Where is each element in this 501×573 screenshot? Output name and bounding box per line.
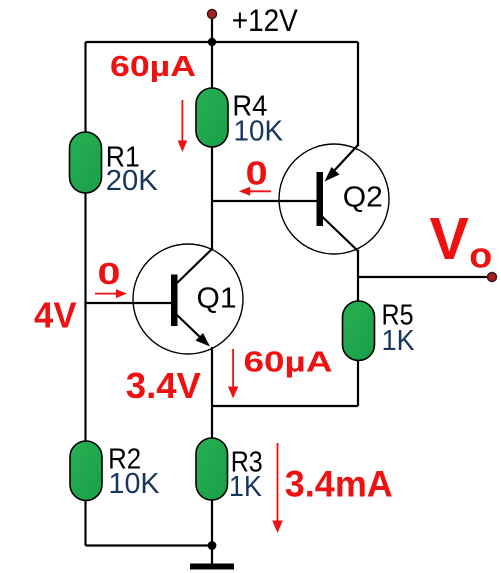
arrow base current Q1 right xyxy=(95,289,127,298)
resistor R3 xyxy=(196,438,263,503)
wire right vertical upper xyxy=(357,42,359,146)
transistor Q1 xyxy=(133,244,243,354)
ground xyxy=(190,546,234,570)
svg-text:1K: 1K xyxy=(382,325,416,357)
wire Q2 collector to R5 top xyxy=(357,250,359,301)
svg-text:Q1: Q1 xyxy=(197,283,237,315)
svg-text:10K: 10K xyxy=(234,116,284,148)
svg-text:0: 0 xyxy=(98,256,121,291)
label Vo output xyxy=(430,206,493,275)
wire R5 bottom to node xyxy=(357,360,359,406)
svg-text:o: o xyxy=(469,234,492,275)
node bottom junction xyxy=(208,541,217,550)
svg-text:3.4V: 3.4V xyxy=(126,365,202,406)
wire top horizontal rail xyxy=(86,41,359,43)
svg-text:V: V xyxy=(430,206,469,272)
node top junction xyxy=(208,38,216,46)
svg-text:3.4mA: 3.4mA xyxy=(285,464,393,505)
transistor Q2 xyxy=(279,144,389,254)
svg-text:Q2: Q2 xyxy=(343,182,383,214)
wire emitter node to R5 bottom xyxy=(212,405,358,407)
svg-text:+12V: +12V xyxy=(232,2,298,38)
arrow current down through R4 xyxy=(178,100,188,152)
arrow base current Q2 left xyxy=(239,187,271,196)
resistor R1 xyxy=(70,132,159,197)
svg-text:1K: 1K xyxy=(229,471,263,503)
arrow R3 current down xyxy=(272,443,283,533)
svg-text:60µA: 60µA xyxy=(244,346,333,378)
resistor R5 xyxy=(343,299,416,360)
wire Vo output xyxy=(358,276,492,278)
svg-text:10K: 10K xyxy=(109,468,161,500)
resistor R2 xyxy=(70,441,160,501)
resistor R4 xyxy=(196,88,284,148)
wire middle vertical upper xyxy=(211,42,213,90)
wire left vertical xyxy=(84,42,86,546)
wire Q1 emitter to ground node xyxy=(211,347,213,546)
svg-text:4V: 4V xyxy=(34,295,77,336)
wire Q2 base xyxy=(212,200,317,202)
arrow emitter current down xyxy=(228,349,238,399)
wire R4 bottom to Q1 collector xyxy=(211,145,213,249)
wire bottom horizontal xyxy=(86,544,213,546)
wire +12V stub xyxy=(211,14,213,42)
node Vo terminal dot xyxy=(488,273,497,282)
svg-text:0: 0 xyxy=(246,155,268,192)
node +12V supply dot xyxy=(208,10,217,19)
wire Q1 base xyxy=(86,302,172,304)
svg-text:20K: 20K xyxy=(106,165,159,197)
svg-text:60µA: 60µA xyxy=(110,51,196,83)
